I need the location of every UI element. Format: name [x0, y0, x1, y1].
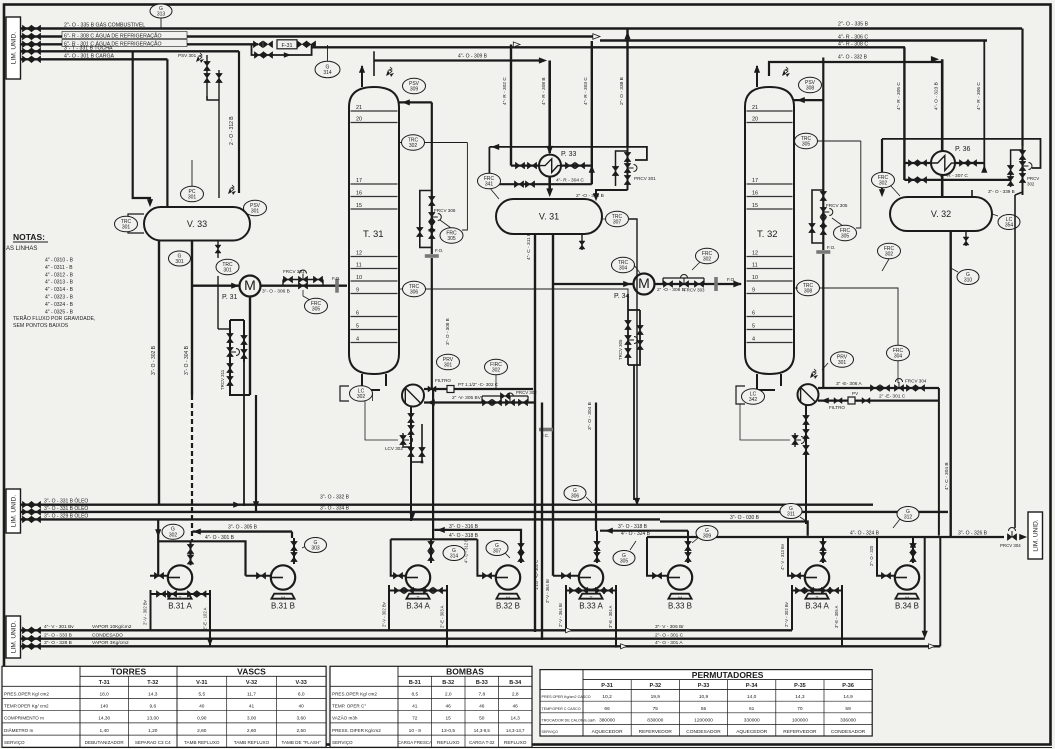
- svg-text:15: 15: [356, 203, 362, 209]
- svg-text:4"- R - 304 C: 4"- R - 304 C: [556, 178, 584, 184]
- wire 4-O-332 B overhead T.32: [769, 62, 941, 76]
- svg-text:4" - 0313 - B: 4" - 0313 - B: [45, 280, 74, 286]
- svg-text:14,3: 14,3: [511, 716, 521, 722]
- wire reflux into T.32 top: [794, 99, 823, 101]
- instrument bubble G 306: [586, 497, 592, 503]
- svg-text:2"- O - 301 C: 2"- O - 301 C: [655, 633, 684, 639]
- svg-text:14,0: 14,0: [747, 694, 757, 700]
- flame arrestor F-31: [277, 40, 297, 49]
- valve B.31B suction: [246, 575, 273, 577]
- relief and PRV 301 at T.32 reboiler: [810, 369, 818, 379]
- instrument bubble G 311: [800, 517, 806, 521]
- svg-text:17: 17: [752, 178, 758, 184]
- svg-text:B.33 A: B.33 A: [579, 602, 603, 611]
- svg-text:CARGA T-32: CARGA T-32: [469, 740, 495, 745]
- svg-text:DEBUTANIZADOR: DEBUTANIZADOR: [85, 740, 125, 745]
- svg-text:PRCV 304: PRCV 304: [1000, 543, 1021, 548]
- wire 4-O-318 B header left: [391, 538, 478, 540]
- valves at P.36 outlet: [959, 160, 968, 167]
- svg-text:B-34: B-34: [509, 680, 522, 686]
- svg-text:P-34: P-34: [746, 683, 759, 689]
- instrument bubble TRC 302 on T.31: [400, 142, 467, 144]
- instrument bubble G 307: [486, 541, 508, 556]
- svg-text:T. 32: T. 32: [757, 229, 778, 240]
- instrument bubble LC 302: [350, 386, 373, 402]
- wire B.34A-r casing loop: [792, 585, 842, 591]
- wire 3-O-316 B header left: [434, 530, 521, 544]
- svg-text:FRCV 306: FRCV 306: [434, 208, 456, 213]
- svg-text:REFLUXO: REFLUXO: [437, 740, 460, 746]
- wire carga drop to V.33: [166, 59, 168, 207]
- svg-text:FRCV 304: FRCV 304: [905, 379, 927, 384]
- svg-text:40: 40: [199, 704, 205, 710]
- instrument bubble G 305: [613, 551, 635, 566]
- wire riser at 938: [938, 388, 940, 536]
- svg-text:TORRES: TORRES: [111, 667, 147, 677]
- svg-text:11: 11: [752, 263, 758, 269]
- svg-text:M: M: [506, 596, 510, 601]
- svg-text:V. 32: V. 32: [931, 209, 951, 219]
- wire 2"-O-335 B gas combustivel header: [21, 27, 1023, 29]
- svg-text:314: 314: [450, 554, 459, 560]
- svg-text:TAMB REFLUXO: TAMB REFLUXO: [234, 740, 270, 745]
- wire TRCV 305 down: [633, 365, 635, 500]
- svg-text:PERMUTADORES: PERMUTADORES: [692, 670, 764, 680]
- svg-text:P. 31: P. 31: [222, 294, 238, 301]
- svg-text:302: 302: [879, 181, 888, 187]
- svg-text:311: 311: [787, 512, 795, 518]
- svg-text:302: 302: [169, 532, 178, 538]
- wire B.34A casing loop: [389, 585, 447, 591]
- instrument bubble TRC 308: [797, 280, 820, 296]
- svg-text:10,9: 10,9: [699, 694, 709, 700]
- svg-text:2" -O - 306 B: 2" -O - 306 B: [657, 287, 685, 293]
- svg-text:301: 301: [838, 360, 847, 366]
- svg-text:4"- O - 323 B: 4"- O - 323 B: [934, 82, 940, 110]
- svg-text:342: 342: [749, 397, 758, 403]
- svg-text:46: 46: [513, 704, 519, 710]
- wire LCV302 outlet to pumps: [432, 389, 434, 539]
- LIM UNID box top-left: [6, 17, 21, 79]
- instrument bubble FRC 302 at P.36: [872, 172, 895, 188]
- svg-text:CONDESADOR: CONDESADOR: [686, 729, 721, 735]
- svg-text:309: 309: [703, 534, 712, 540]
- svg-text:REFLUXO: REFLUXO: [504, 740, 527, 746]
- svg-text:V-32: V-32: [246, 680, 257, 686]
- svg-text:15: 15: [752, 203, 758, 209]
- svg-text:4"- O - 324 B: 4"- O - 324 B: [850, 531, 880, 537]
- svg-text:P. 36: P. 36: [955, 146, 971, 153]
- svg-text:FRCV 305: FRCV 305: [826, 203, 848, 208]
- svg-text:307: 307: [493, 549, 502, 555]
- svg-text:P-36: P-36: [842, 683, 854, 689]
- svg-text:LIM. UNID.: LIM. UNID.: [10, 621, 17, 653]
- wire 2-V-305 BV into reboiler: [424, 401, 535, 403]
- svg-text:312: 312: [904, 515, 913, 521]
- svg-text:301: 301: [444, 363, 453, 369]
- svg-text:4" - 0324 - B: 4" - 0324 - B: [45, 302, 74, 308]
- wire 6"-R-308 C agua de refrigeracao: [21, 35, 595, 37]
- vessel V.33 flash drum: [144, 207, 250, 241]
- svg-text:304: 304: [619, 266, 628, 272]
- svg-text:SERVIÇO: SERVIÇO: [542, 730, 559, 734]
- LIM UNID box mid-left: [6, 489, 21, 533]
- wire 6"-R-301 C agua de refrigeracao: [21, 43, 259, 45]
- wire 4-O-309 B arrow into drop: [539, 58, 546, 63]
- svg-text:FRCV 301: FRCV 301: [283, 269, 305, 274]
- svg-text:3"- O - 030 B: 3"- O - 030 B: [730, 515, 760, 521]
- wire T.32 reflux line down to reboiler: [822, 254, 824, 388]
- wire loop left vertical: [488, 147, 490, 184]
- svg-text:302: 302: [409, 143, 418, 149]
- svg-text:P-35: P-35: [794, 683, 806, 689]
- svg-text:4"- R - 308 B: 4"- R - 308 B: [541, 77, 547, 105]
- control station PRCV 301: [627, 147, 629, 190]
- instrument bubble LC 342: [742, 389, 765, 405]
- svg-text:CONDESADOR: CONDESADOR: [831, 729, 866, 735]
- exchanger P.36: [904, 162, 984, 164]
- reflux station FRCV 306 at T.31: [431, 102, 433, 254]
- svg-text:4"- C - 312 B: 4"- C - 312 B: [464, 539, 469, 563]
- svg-text:14,3: 14,3: [148, 691, 158, 697]
- svg-text:305: 305: [312, 307, 321, 313]
- svg-text:4"- O - 332 B: 4"- O - 332 B: [838, 55, 868, 61]
- svg-text:4"- R - 308 C: 4"- R - 308 C: [838, 42, 868, 48]
- svg-text:TROCA/DOR DE CALOR/a cal/h: TROCA/DOR DE CALOR/a cal/h: [542, 718, 596, 722]
- svg-text:M: M: [244, 277, 256, 293]
- svg-text:TAMB DE "FLASH": TAMB DE "FLASH": [281, 740, 321, 745]
- wire P.31 discharge 3-O-306 B: [261, 285, 348, 287]
- wire 3-O-331 B oleo header: [21, 504, 874, 506]
- wire 3"-T-331 B tocha: [21, 50, 240, 52]
- wire reflux line down to reboiler: [431, 258, 433, 389]
- pump B.31 B: [271, 594, 294, 599]
- svg-text:1200000: 1200000: [694, 717, 713, 723]
- pump B.33 B: [668, 594, 691, 599]
- wire B.34A suction from header: [391, 539, 406, 575]
- valves at P.33 inlet: [515, 162, 524, 169]
- svg-text:V-33: V-33: [296, 680, 307, 686]
- column T.32 separator: [745, 87, 794, 374]
- instrument bubble G 314: [327, 45, 329, 62]
- svg-text:3"- O - 328 B: 3"- O - 328 B: [44, 640, 72, 646]
- bypass station TRCV 311: [217, 276, 219, 329]
- wire 2-O-338 B riser: [626, 29, 628, 147]
- svg-text:2"-E - 102 A: 2"-E - 102 A: [203, 607, 208, 630]
- svg-text:4"- C - 311 B: 4"- C - 311 B: [526, 233, 532, 260]
- svg-text:61: 61: [749, 706, 755, 712]
- svg-text:5,5: 5,5: [198, 691, 205, 697]
- control valve PRCV 304 exit: [1007, 534, 1016, 541]
- instrument bubble FRC 305 at P.31: [303, 290, 310, 300]
- svg-text:4" - 0312 - B: 4" - 0312 - B: [45, 272, 74, 278]
- wire B.34A-r suction drop: [788, 537, 805, 576]
- orifice F.O. on T.31 feed: [335, 279, 339, 293]
- svg-text:41: 41: [249, 704, 255, 710]
- svg-text:309: 309: [410, 87, 419, 93]
- wire right end drops to steam headers: [924, 550, 926, 633]
- svg-text:20: 20: [356, 117, 362, 123]
- drain valve under V.31: [581, 234, 583, 250]
- svg-text:F-31: F-31: [281, 43, 292, 49]
- wire V.31 bottoms second drop: [552, 234, 554, 576]
- svg-text:2,50: 2,50: [297, 728, 307, 734]
- pump B.31 A: [168, 594, 191, 599]
- svg-text:4"- R - 306 C: 4"- R - 306 C: [976, 82, 982, 110]
- instrument bubble G 309: [696, 526, 718, 541]
- instrument bubble FIRC 302: [485, 359, 508, 375]
- reboiler exchanger at T.31: [402, 385, 424, 407]
- wire B.33B discharge riser: [687, 531, 689, 563]
- svg-text:2"-E - 303 A: 2"-E - 303 A: [440, 605, 445, 628]
- wire V.31 bottoms 4-C-311 B: [534, 234, 536, 632]
- svg-text:4"- O - 309 B: 4"- O - 309 B: [458, 54, 488, 60]
- svg-text:40: 40: [299, 704, 305, 710]
- instrument bubble TRC 305 T.32: [794, 140, 861, 142]
- PSV relief station above V.33: [206, 55, 208, 100]
- svg-text:3"- O - 304 B: 3"- O - 304 B: [587, 402, 593, 430]
- svg-text:T: T: [179, 596, 182, 601]
- wire 2-O-308 B into V.31: [596, 190, 628, 194]
- svg-text:PSV 301: PSV 301: [178, 53, 197, 58]
- table TORRES and VASCS: [2, 666, 326, 747]
- open arrow on header: [513, 42, 520, 47]
- svg-text:B-33: B-33: [476, 680, 488, 686]
- svg-text:5: 5: [752, 324, 755, 330]
- svg-text:16: 16: [752, 191, 758, 197]
- wire 3-O-334 B oleo header: [21, 511, 949, 513]
- svg-text:2,60: 2,60: [247, 728, 257, 734]
- svg-text:PRCV 301: PRCV 301: [634, 176, 656, 181]
- svg-text:3,60: 3,60: [297, 716, 307, 722]
- svg-text:2"-V - 364 Br: 2"-V - 364 Br: [545, 578, 550, 603]
- wire 3-O-030 B continuation: [660, 522, 808, 536]
- svg-text:AQUECEDOR: AQUECEDOR: [592, 729, 623, 735]
- svg-text:4"- R - 302 C: 4"- R - 302 C: [502, 77, 508, 105]
- svg-text:2"-V - 302 Bv: 2"-V - 302 Bv: [143, 599, 148, 625]
- svg-text:301: 301: [251, 209, 260, 215]
- drain valve under V.32: [965, 231, 967, 246]
- svg-text:140: 140: [100, 704, 108, 710]
- svg-text:TEMP.OPER C CASCO: TEMP.OPER C CASCO: [542, 707, 581, 711]
- svg-text:F.O.: F.O.: [332, 276, 340, 281]
- wire V.32 bottoms 4-C-304 B: [950, 231, 952, 537]
- svg-text:4"- C - 304 B: 4"- C - 304 B: [944, 462, 950, 490]
- svg-text:3"- O - 316 B: 3"- O - 316 B: [449, 524, 479, 530]
- wire F-31 bypass: [252, 44, 312, 55]
- svg-text:302: 302: [357, 394, 366, 400]
- instrument bubble LC 354: [992, 214, 998, 216]
- exchanger P.33: [511, 165, 592, 167]
- svg-text:3"- O - 305 B: 3"- O - 305 B: [228, 525, 258, 531]
- svg-text:4"- R - 305 C: 4"- R - 305 C: [896, 82, 902, 110]
- svg-text:2 - O - 312 B: 2 - O - 312 B: [229, 116, 235, 145]
- svg-text:B.32 B: B.32 B: [496, 602, 520, 611]
- valve F-31 outlet pair: [297, 41, 306, 48]
- reflux station FRCV 305 at T.32: [822, 58, 824, 251]
- svg-text:V. 33: V. 33: [187, 219, 207, 229]
- control station PRCV 302: [482, 399, 491, 406]
- instrument bubble TRC 301 lower: [216, 259, 239, 275]
- instrument bubble FRC 302 P.34: [692, 262, 700, 270]
- wire 4-R-302 C riser to P.33: [510, 45, 512, 166]
- svg-text:M: M: [905, 596, 909, 601]
- svg-text:4" - 0314 - B: 4" - 0314 - B: [45, 287, 74, 293]
- wire B.32B suction drop: [477, 539, 496, 575]
- svg-text:6: 6: [752, 311, 755, 317]
- svg-text:3,00: 3,00: [247, 716, 257, 722]
- svg-text:75: 75: [653, 706, 659, 712]
- svg-text:3"- T - 331 B TOCHA: 3"- T - 331 B TOCHA: [64, 46, 113, 52]
- relief valve PSV 308 on T.32: [756, 66, 758, 87]
- svg-text:TEMP.OPER Kg/ cm2: TEMP.OPER Kg/ cm2: [4, 704, 49, 709]
- svg-text:21: 21: [356, 105, 362, 111]
- svg-text:302: 302: [885, 252, 894, 258]
- svg-text:10: 10: [356, 275, 362, 281]
- svg-text:4"- R - 303 C: 4"- R - 303 C: [583, 77, 589, 105]
- orifice F.O. T.32 feed: [714, 277, 718, 291]
- svg-text:301: 301: [175, 259, 184, 265]
- svg-text:15: 15: [446, 716, 452, 722]
- table PERMUTADORES: [540, 670, 872, 736]
- instrument bubble G 302: [179, 528, 181, 532]
- svg-text:BOMBAS: BOMBAS: [446, 667, 484, 677]
- svg-text:3"- O - 326 B: 3"- O - 326 B: [958, 531, 988, 537]
- svg-text:4: 4: [752, 337, 755, 343]
- svg-text:SERVIÇO: SERVIÇO: [4, 740, 25, 745]
- wire 3-O-302 B drop from V.33: [158, 240, 160, 505]
- svg-text:70: 70: [797, 706, 803, 712]
- svg-text:B.34 B: B.34 B: [895, 602, 919, 611]
- svg-text:4" - 0310 - B: 4" - 0310 - B: [45, 258, 74, 264]
- pump B.34 A: [406, 594, 429, 599]
- wire condensate into V.32: [881, 139, 883, 190]
- svg-text:301: 301: [188, 195, 197, 201]
- svg-text:T: T: [590, 596, 593, 601]
- svg-text:302: 302: [1027, 182, 1035, 187]
- svg-text:4"- V - 301 Bv: 4"- V - 301 Bv: [44, 624, 74, 630]
- svg-text:NOTAS:: NOTAS:: [13, 232, 45, 242]
- instrument bubble FRC 302 near V.32: [878, 243, 901, 259]
- svg-text:66: 66: [604, 706, 610, 712]
- pump P.34: [553, 283, 634, 285]
- svg-text:14,3-9,5: 14,3-9,5: [474, 728, 491, 733]
- svg-text:SERVIÇO: SERVIÇO: [332, 740, 353, 745]
- svg-text:3"- O - 331 B ÓLEO: 3"- O - 331 B ÓLEO: [44, 505, 88, 512]
- svg-text:305: 305: [841, 234, 850, 240]
- svg-text:3" -E- 306 A: 3" -E- 306 A: [836, 381, 863, 387]
- wire B.31A casing loop: [151, 590, 211, 594]
- svg-text:PRESS. DIFER Kg/cm2: PRESS. DIFER Kg/cm2: [332, 728, 381, 733]
- wire B.31A suction drop: [157, 519, 159, 575]
- svg-text:LCV 302: LCV 302: [385, 446, 403, 451]
- svg-text:TRCV 305: TRCV 305: [618, 339, 623, 360]
- level bridle V.33: [128, 214, 144, 233]
- pump P.31: [192, 285, 240, 287]
- svg-text:308: 308: [806, 86, 815, 92]
- svg-text:1.1/2" -C- 302 C: 1.1/2" -C- 302 C: [534, 560, 539, 590]
- instrument bubble G 313 top: [160, 17, 162, 29]
- svg-text:F.O.: F.O.: [435, 248, 443, 253]
- LIM UNID box right: [1028, 512, 1043, 559]
- svg-text:4"- O - 301 B CARGA: 4"- O - 301 B CARGA: [64, 54, 115, 60]
- instrument bubble PC 301: [191, 160, 193, 186]
- svg-text:1,40: 1,40: [100, 728, 110, 734]
- control station PRCV 302 right edge: [1022, 146, 1024, 195]
- svg-text:4"- O - 318 B: 4"- O - 318 B: [449, 533, 479, 539]
- svg-text:46: 46: [479, 704, 485, 710]
- svg-text:T-31: T-31: [99, 680, 110, 686]
- svg-text:M: M: [281, 596, 285, 601]
- wire reboiler bottoms via LCV 302: [410, 406, 412, 521]
- svg-text:2"- O - 335 B GÁS COMBUSTIV: 2"- O - 335 B GÁS COMBUSTIVEL: [64, 22, 145, 29]
- level bridle T.31 bottom: [372, 394, 374, 402]
- wire B.32B discharge riser: [520, 544, 522, 563]
- svg-text:301: 301: [122, 225, 131, 231]
- svg-text:10: 10: [752, 275, 758, 281]
- svg-text:336000: 336000: [840, 717, 856, 723]
- wire right side long drop: [1014, 195, 1016, 528]
- svg-text:PRES.OPER Kg/cm2 CASCO: PRES.OPER Kg/cm2 CASCO: [542, 695, 591, 699]
- wire 4-R-303 C riser: [591, 41, 593, 184]
- svg-text:3"- O - 308 B: 3"- O - 308 B: [445, 318, 450, 345]
- svg-text:2"- O - 338 B: 2"- O - 338 B: [619, 77, 625, 105]
- wire reflux to column top: [399, 101, 432, 103]
- svg-text:354: 354: [1005, 223, 1014, 229]
- svg-text:2"- O - 335 B: 2"- O - 335 B: [838, 22, 869, 28]
- svg-text:PRCV 302: PRCV 302: [516, 390, 537, 395]
- svg-text:4: 4: [356, 337, 359, 343]
- svg-text:10,2: 10,2: [602, 694, 612, 700]
- svg-text:16: 16: [356, 191, 362, 197]
- svg-text:55: 55: [701, 706, 707, 712]
- wire 3-O-305 B pump header: [193, 530, 293, 532]
- wire right border riser 2-O-335 B: [1021, 29, 1023, 147]
- svg-text:F.O.: F.O.: [827, 245, 835, 250]
- svg-text:M: M: [638, 275, 650, 291]
- svg-text:0,90: 0,90: [197, 716, 207, 722]
- svg-text:T: T: [417, 596, 420, 601]
- wire B.34A-r discharge riser: [822, 537, 824, 563]
- wire TRC 307 line to G 306: [629, 219, 637, 500]
- svg-text:2,8: 2,8: [512, 691, 519, 697]
- svg-text:308: 308: [804, 289, 813, 295]
- bypass station TRCV 305 under P.34: [627, 294, 629, 365]
- svg-text:REFERVEDOR: REFERVEDOR: [783, 729, 817, 735]
- svg-text:DIÂMETRO m: DIÂMETRO m: [4, 727, 34, 733]
- instrument bubble TRC 307: [602, 218, 606, 220]
- svg-text:3"- O - 329 B ÓLEO: 3"- O - 329 B ÓLEO: [44, 513, 88, 520]
- svg-text:6: 6: [356, 311, 359, 317]
- wire TRC 306 signal right: [426, 289, 628, 307]
- svg-text:LIM. UNID.: LIM. UNID.: [10, 32, 17, 64]
- svg-text:PV: PV: [852, 391, 859, 396]
- wire vertical 1.1/2-C-302 C: [541, 403, 543, 641]
- svg-text:9: 9: [752, 288, 755, 294]
- svg-text:2" -E- 301 C: 2" -E- 301 C: [879, 394, 906, 400]
- bypass at LCV 302: [411, 424, 422, 462]
- svg-text:2"-V - 364 Br: 2"-V - 364 Br: [558, 602, 563, 627]
- svg-text:305: 305: [802, 142, 811, 148]
- wire 3-E-306 A from reboiler: [818, 387, 939, 389]
- wire P.31 lines down to oil headers: [249, 297, 251, 396]
- svg-text:PRES.OPER Kg/ cm2: PRES.OPER Kg/ cm2: [4, 691, 49, 696]
- svg-text:14,30: 14,30: [98, 716, 110, 722]
- svg-text:3"-E - 304 A: 3"-E - 304 A: [608, 605, 613, 628]
- svg-text:TAMB REFLUXO: TAMB REFLUXO: [184, 740, 220, 745]
- valves at P.36 inlet: [908, 160, 917, 167]
- svg-text:FRCV 303: FRCV 303: [684, 288, 705, 293]
